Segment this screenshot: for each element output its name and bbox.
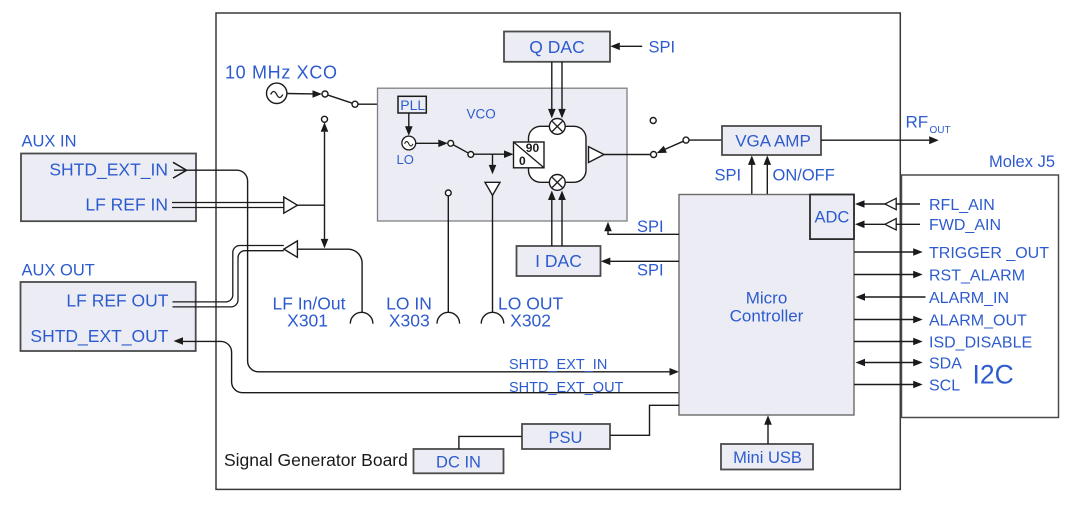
wire DC IN to PSU [459, 436, 522, 449]
buffer LF REF IN (right triangle) [284, 197, 298, 213]
wire LF REF IN pair [172, 203, 284, 208]
wire branch to LO OUT buffer [492, 154, 494, 165]
box I DAC [517, 246, 601, 276]
block VCO [378, 88, 628, 221]
svg-text:Micro: Micro [746, 289, 788, 308]
wire Mini USB to Micro Controller [767, 425, 769, 445]
box AUX IN [21, 133, 196, 222]
wire XCO to switch [287, 93, 313, 95]
oscillator LO [397, 136, 416, 167]
connector X302 arc [481, 312, 504, 323]
svg-text:Controller: Controller [730, 307, 804, 326]
wire PLL to LO [408, 113, 410, 127]
svg-text:SCL: SCL [929, 377, 960, 394]
wire ON/OFF to VGA AMP [764, 155, 835, 194]
svg-text:SPI: SPI [637, 218, 664, 236]
switch pole LO [468, 152, 474, 158]
svg-text:Mini USB: Mini USB [733, 449, 802, 467]
mixer Q (top) [549, 119, 565, 135]
svg-text:SHTD_EXT_IN: SHTD_EXT_IN [509, 357, 607, 373]
wire SHTD_EXT_IN long [174, 170, 670, 372]
buffer LF REF OUT (left triangle) [284, 241, 298, 257]
switch arm RF with arrow [665, 141, 684, 149]
svg-text:VCO: VCO [467, 106, 496, 121]
phase splitter 90/0 box [514, 141, 545, 168]
wire SPI to VCO [604, 218, 679, 236]
svg-text:OUT: OUT [930, 125, 951, 136]
svg-text:SPI: SPI [649, 38, 676, 56]
wire RST_ALARM [854, 267, 1025, 284]
wire SPI to VGA AMP [715, 155, 756, 194]
wire TRIGGER_OUT [854, 245, 1049, 262]
svg-text:VGA AMP: VGA AMP [735, 132, 811, 151]
switch LF throw terminal [322, 116, 328, 122]
wire pole to VGA AMP [689, 139, 722, 141]
svg-text:10 MHz XCO: 10 MHz XCO [225, 63, 337, 83]
switch RF throw terminal [651, 152, 657, 158]
svg-text:SHTD_EXT_IN: SHTD_EXT_IN [49, 160, 168, 181]
svg-text:ALARM_IN: ALARM_IN [929, 290, 1009, 307]
svg-text:SDA: SDA [929, 355, 962, 372]
wire switch pole to PLL [358, 103, 389, 105]
connector X301 arc [350, 312, 373, 323]
svg-text:X301: X301 [287, 311, 328, 331]
switch pole XCO [352, 101, 358, 107]
wire ALARM_OUT [854, 312, 1027, 329]
connector X303 arc [437, 312, 460, 323]
wire LO to switch [416, 142, 439, 144]
wire LF line to X301 [297, 249, 362, 312]
svg-text:I2C: I2C [973, 360, 1014, 390]
pin chevron SHTD_EXT_IN [173, 162, 187, 178]
svg-text:FWD_AIN: FWD_AIN [929, 217, 1001, 234]
wire ALARM_IN [856, 290, 1010, 307]
svg-text:0: 0 [519, 154, 526, 168]
svg-text:X303: X303 [389, 311, 430, 331]
box Micro Controller [679, 195, 854, 416]
wire LF trunk vertical [321, 122, 329, 248]
buffer RF (right triangle) [589, 147, 605, 163]
switch RF float terminal [650, 118, 656, 124]
svg-text:SHTD_EXT_OUT: SHTD_EXT_OUT [509, 380, 624, 396]
svg-text:RFL_AIN: RFL_AIN [929, 197, 995, 214]
wire VGA AMP to RF OUT [821, 139, 929, 141]
svg-text:AUX IN: AUX IN [22, 133, 77, 151]
wire LF REF IN buffer to trunk [297, 204, 324, 206]
mixer I (bottom) [549, 175, 565, 191]
svg-text:SHTD_EXT_OUT: SHTD_EXT_OUT [30, 326, 168, 347]
svg-text:LF REF OUT: LF REF OUT [66, 290, 168, 310]
svg-text:DC IN: DC IN [436, 453, 481, 471]
switch arm LO [453, 145, 469, 154]
svg-text:PSU: PSU [549, 429, 583, 447]
svg-text:ALARM_OUT: ALARM_OUT [929, 312, 1027, 329]
wire I DAC to mixer I (pair) [548, 191, 566, 247]
svg-text:ISD_DISABLE: ISD_DISABLE [929, 334, 1032, 351]
wire LO OUT down to X302 [492, 195, 494, 312]
wire LO pole to phase splitter [473, 153, 504, 155]
svg-text:Molex J5: Molex J5 [989, 153, 1055, 171]
IQ modulator rounded square [529, 126, 587, 182]
oscillator 10 MHz XCO [225, 63, 337, 104]
switch arm XCO [328, 95, 353, 103]
wire FWD_AIN [855, 217, 1001, 234]
box PSU [522, 424, 610, 449]
svg-text:X302: X302 [510, 311, 551, 331]
wire SDA [856, 355, 963, 372]
svg-text:ADC: ADC [815, 209, 850, 227]
box Q DAC [504, 32, 610, 62]
switch pole RF [683, 137, 689, 143]
wire LO IN down to X303 [447, 196, 449, 313]
wire RFL_AIN [855, 197, 995, 214]
box ADC [810, 195, 854, 240]
svg-text:LF REF IN: LF REF IN [85, 195, 168, 215]
box VGA AMP [722, 126, 821, 155]
buffer LO OUT (down triangle) [485, 182, 500, 195]
label RF OUT [906, 113, 951, 137]
box Molex J5 [902, 175, 1059, 418]
wire LF REF OUT pair [173, 246, 284, 307]
label SPI to Q DAC [610, 38, 675, 56]
svg-text:RF: RF [906, 113, 929, 132]
wire SCL [854, 377, 960, 394]
terminal LO IN circle [445, 190, 451, 196]
svg-text:RST_ALARM: RST_ALARM [929, 267, 1025, 284]
box DC IN [414, 449, 504, 473]
wire VCO output to RF switch [604, 154, 651, 156]
svg-text:LO: LO [397, 152, 414, 167]
svg-text:I DAC: I DAC [535, 251, 582, 271]
svg-text:SPI: SPI [715, 167, 742, 185]
wire SPI to I DAC [601, 258, 679, 280]
wire PSU to Micro Controller [610, 405, 679, 435]
svg-text:Q DAC: Q DAC [529, 37, 584, 57]
board outline Signal Generator Board [216, 13, 900, 489]
switch XCO throw terminal [322, 91, 328, 97]
svg-text:TRIGGER _OUT: TRIGGER _OUT [929, 245, 1049, 262]
svg-text:Signal Generator Board: Signal Generator Board [224, 450, 408, 470]
wire SHTD_EXT_OUT long [183, 341, 680, 392]
wire Q DAC to mixer Q (pair) [548, 62, 566, 119]
svg-text:AUX OUT: AUX OUT [22, 262, 95, 280]
box Mini USB [721, 444, 813, 470]
wire ISD_DISABLE [854, 334, 1032, 351]
switch LO throw terminal [448, 140, 454, 146]
box PLL [398, 96, 426, 113]
svg-text:SPI: SPI [637, 262, 664, 280]
svg-text:PLL: PLL [400, 97, 425, 113]
svg-text:90: 90 [526, 141, 540, 155]
svg-text:ON/OFF: ON/OFF [773, 167, 835, 185]
box AUX OUT [21, 262, 196, 352]
